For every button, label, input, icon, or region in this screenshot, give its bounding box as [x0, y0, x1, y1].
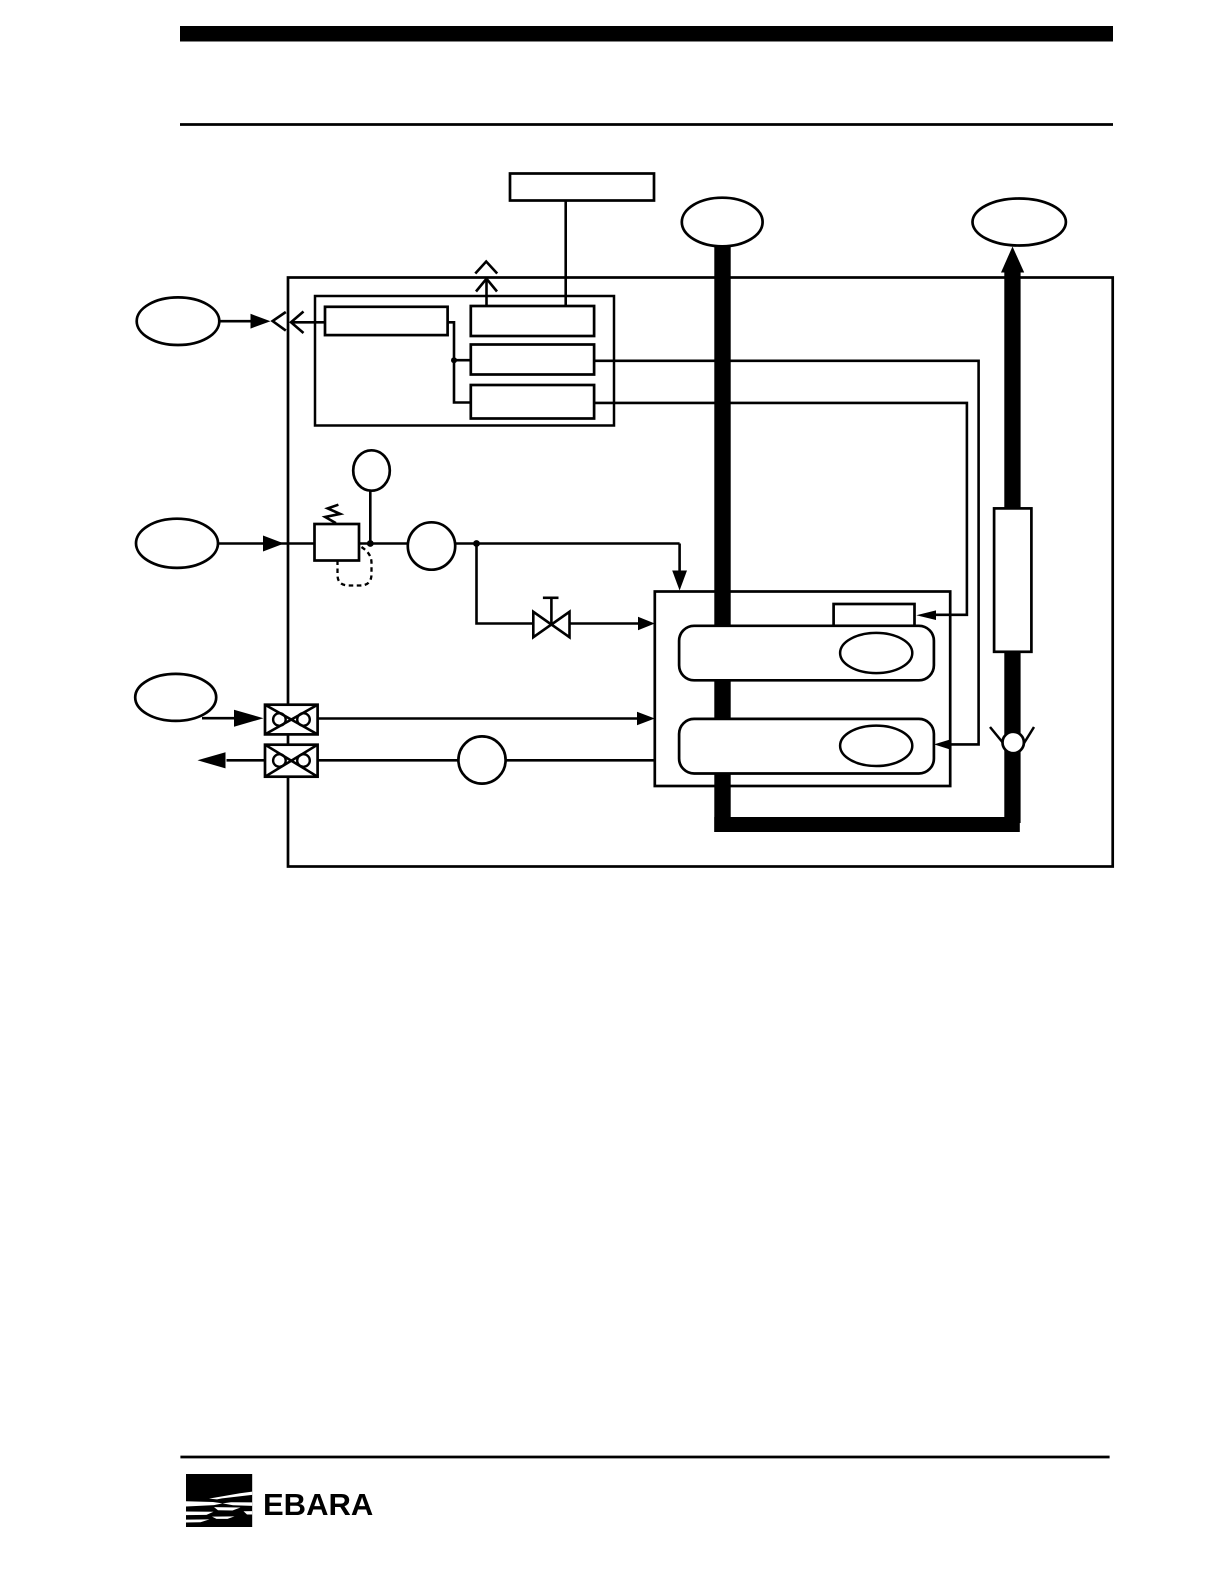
svg-text:EBARA: EBARA: [263, 1487, 373, 1522]
